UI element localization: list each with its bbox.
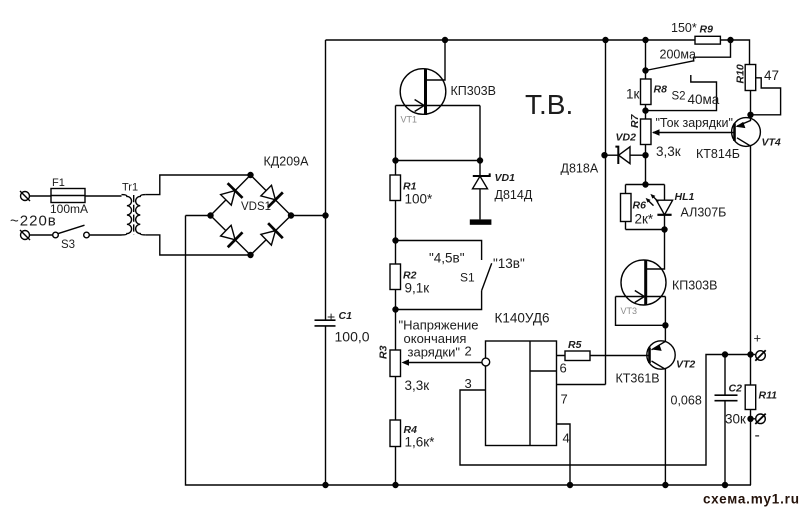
svg-text:0,068: 0,068 <box>671 394 702 408</box>
transistor VT2 body <box>647 341 675 369</box>
svg-text:КТ361В: КТ361В <box>616 372 660 386</box>
svg-text:КД209А: КД209А <box>264 155 310 169</box>
svg-text:+: + <box>754 331 762 346</box>
LED HL1 <box>656 185 672 230</box>
node VD2 left rail <box>602 153 607 158</box>
bridge diode top-right <box>259 183 283 207</box>
wire plus terminal stub <box>751 354 756 356</box>
svg-text:150*: 150* <box>671 21 697 35</box>
terminal X2 input bottom <box>20 230 30 240</box>
svg-text:схема.my1.ru: схема.my1.ru <box>703 492 800 507</box>
svg-text:C1: C1 <box>339 310 353 322</box>
wire VT3 gate-source tie loop <box>616 297 666 326</box>
resistor R10 rheostat <box>745 65 756 91</box>
node R1 top <box>393 158 398 163</box>
bridge diode bottom-left <box>218 223 242 247</box>
svg-text:7: 7 <box>561 392 568 407</box>
svg-text:1к: 1к <box>626 87 640 102</box>
svg-text:~220в: ~220в <box>10 213 57 230</box>
wire VT1 source down to VD1 node <box>479 106 481 161</box>
svg-text:R8: R8 <box>654 84 668 96</box>
wire node R1-VD1 horizontal <box>396 160 481 162</box>
node C2 top <box>723 352 728 357</box>
svg-text:4: 4 <box>563 431 570 446</box>
switch S2 arm <box>646 61 695 71</box>
wire VT2 emitter from VT3 node <box>652 325 666 350</box>
wire VT1 gate down to R1 node <box>395 106 397 161</box>
svg-text:КП303В: КП303В <box>451 84 496 98</box>
wire VT3 drain to HL1 node <box>646 230 665 270</box>
resistor R4 <box>390 420 401 447</box>
LED HL1 emission arrows <box>646 194 659 206</box>
svg-text:100*: 100* <box>405 192 434 207</box>
wire R10 wiper loop <box>751 78 781 115</box>
wire divider column R1 R2 R3 R4 <box>395 161 397 486</box>
svg-text:R9: R9 <box>700 24 714 36</box>
wire VD2 right lead <box>630 154 646 156</box>
wire transformer secondary top to bridge <box>146 175 251 195</box>
transistor VT1 body <box>400 69 446 115</box>
svg-text:"Ток зарядки": "Ток зарядки" <box>656 116 733 130</box>
svg-text:2: 2 <box>465 344 472 359</box>
svg-text:S2: S2 <box>672 91 686 103</box>
wire S1 pivot to R2 bottom node <box>396 291 482 310</box>
wire op-amp pin 3 to plus output node <box>460 355 751 466</box>
wire HL1 R6 bottom bar <box>626 229 665 231</box>
resistor R8 <box>641 79 652 105</box>
bridge diode top-left <box>218 183 242 207</box>
wire VT4 emitter <box>737 115 751 126</box>
capacitor C1 <box>315 320 336 326</box>
svg-text:зарядки": зарядки" <box>408 345 461 360</box>
svg-text:"13в": "13в" <box>493 256 525 271</box>
wire VD2 left lead <box>605 154 619 156</box>
wire transformer secondary bottom to bridge <box>146 235 251 255</box>
wire minus rail and bottom common rail <box>186 216 752 486</box>
resistor R6 <box>621 194 632 222</box>
wire VD2 rail vertical <box>605 40 607 385</box>
wire R3 wiper to op-amp pin 2 <box>405 362 482 364</box>
svg-text:Т.В.: Т.В. <box>525 89 573 120</box>
resistor R11 <box>745 385 756 410</box>
wire S2 upper contact to R9 right <box>694 40 731 62</box>
svg-text:VT4: VT4 <box>762 137 781 149</box>
svg-text:R11: R11 <box>759 390 778 402</box>
svg-text:47: 47 <box>764 68 779 83</box>
svg-text:КП303В: КП303В <box>672 279 717 293</box>
node VD2 right R7 <box>643 153 648 158</box>
svg-text:1,6к*: 1,6к* <box>405 435 436 450</box>
svg-text:2к*: 2к* <box>635 212 654 227</box>
svg-text:АЛ307Б: АЛ307Б <box>681 206 727 220</box>
wire R10 bottom to VT4 emitter node <box>750 91 752 115</box>
fuse F1 <box>51 189 85 203</box>
svg-text:C2: C2 <box>729 383 743 395</box>
node R8 bottom <box>643 108 648 113</box>
svg-text:3,3к: 3,3к <box>405 378 430 393</box>
node bridge top <box>248 173 253 178</box>
svg-text:VT3: VT3 <box>621 306 638 316</box>
wire R8 branch from top rail <box>645 40 647 185</box>
wire left DC plus rail (through C1) <box>325 40 327 485</box>
node S2 pivot <box>643 68 648 73</box>
wire VT2 collector to bottom rail <box>652 361 666 485</box>
resistor R9 <box>695 36 720 44</box>
wire top supply rail <box>326 40 750 65</box>
transistor VT4 body <box>732 118 761 147</box>
node VT1 drain on rail <box>443 38 448 43</box>
svg-text:9,1к: 9,1к <box>405 281 430 296</box>
svg-text:R10: R10 <box>735 64 747 83</box>
svg-text:40ма: 40ма <box>688 92 720 107</box>
node VT4 emitter <box>748 112 753 117</box>
capacitor C2 <box>715 395 738 401</box>
wire VT3 gate-source line <box>616 296 666 298</box>
svg-text:3,3к: 3,3к <box>656 144 681 159</box>
svg-text:Tr1: Tr1 <box>122 182 138 194</box>
svg-text:-: - <box>755 427 760 444</box>
wire VT1 drain to top rail <box>426 40 446 80</box>
wire S3 to transformer <box>89 234 121 236</box>
svg-text:R7: R7 <box>629 113 641 128</box>
resistor R1 <box>390 175 401 201</box>
bridge rectifier VDS1 frame <box>211 175 292 255</box>
zener diode VD1 <box>473 161 490 220</box>
wire VT1 gate-source horizontal <box>396 105 481 107</box>
node bottom rail VT2 <box>663 483 668 488</box>
node HL1 bottom <box>662 227 667 232</box>
svg-text:6: 6 <box>560 361 567 376</box>
node plus output <box>748 352 753 357</box>
wire op-amp pin 6 through R5 to VT2 base <box>557 355 650 357</box>
wire bridge right node to plus rail <box>291 215 326 217</box>
svg-text:R5: R5 <box>568 339 582 351</box>
svg-text:30к: 30к <box>725 412 746 427</box>
switch S1 arm <box>482 263 492 290</box>
wire C2 branch <box>724 355 726 486</box>
switch S3 <box>53 225 90 238</box>
wire S1 upper contact branch <box>396 241 482 261</box>
wire S2 lower contact loop (40ma) <box>646 75 717 111</box>
resistor R2 <box>390 264 401 290</box>
svg-text:"4,5в": "4,5в" <box>429 251 465 266</box>
node minus output <box>748 416 753 421</box>
resistor R5 <box>565 351 590 361</box>
transformer Tr1 secondary winding <box>136 195 146 235</box>
node bottom rail C1 <box>323 483 328 488</box>
transistor VT3 body <box>621 260 666 305</box>
node plus rail at bridge <box>323 213 328 218</box>
node top rail R8 branch <box>643 38 648 43</box>
wire op-amp pin 4 to bottom rail <box>557 424 571 485</box>
wire input line bottom to S3 <box>30 234 53 236</box>
node bottom rail R4 <box>393 483 398 488</box>
terminal minus output <box>755 414 765 424</box>
transformer Tr1 primary winding <box>122 195 132 235</box>
wire HL1 R6 top bar <box>626 184 665 186</box>
wire VT4 collector down through R11 to minus rail <box>737 138 751 485</box>
node VD1 top <box>478 158 483 163</box>
node VT3 source tie <box>663 323 668 328</box>
op-amp U1 K140UD6 <box>482 341 557 446</box>
node R2 top (S1 branch) <box>393 238 398 243</box>
svg-text:К140УД6: К140УД6 <box>495 311 550 326</box>
resistor R7 potentiometer <box>641 119 660 145</box>
node R2 bottom <box>393 307 398 312</box>
chassis bar below VD1 <box>470 219 492 224</box>
wire minus terminal stub <box>751 418 756 420</box>
svg-text:+: + <box>327 309 335 325</box>
svg-text:R3: R3 <box>378 345 390 359</box>
node bridge bottom <box>248 253 253 258</box>
svg-text:R6: R6 <box>633 200 647 212</box>
svg-text:VT2: VT2 <box>676 359 695 371</box>
svg-text:S1: S1 <box>460 271 475 285</box>
svg-text:3: 3 <box>465 376 472 391</box>
terminal plus output <box>755 350 765 360</box>
bridge diode bottom-right <box>259 223 283 247</box>
terminal X1 input top <box>20 191 30 201</box>
svg-text:HL1: HL1 <box>675 191 695 203</box>
svg-text:Д814Д: Д814Д <box>495 188 533 202</box>
wire R7 wiper to VT4 base <box>653 132 735 134</box>
wire op-amp pin 7 to VD2 rail <box>557 384 606 386</box>
node bridge right <box>289 213 294 218</box>
svg-text:100,0: 100,0 <box>335 329 370 345</box>
wire R6 stubs <box>625 185 627 230</box>
svg-text:S3: S3 <box>61 239 75 251</box>
wire input line top <box>30 195 122 197</box>
wire bridge left node to minus rail <box>186 215 211 217</box>
node top rail R9 right <box>728 38 733 43</box>
svg-text:Д818А: Д818А <box>561 162 599 176</box>
node HL1 top <box>643 182 648 187</box>
svg-text:200ма: 200ма <box>660 48 696 62</box>
transformer Tr1 core <box>133 195 135 235</box>
svg-text:VD2: VD2 <box>616 132 637 144</box>
node bridge left <box>208 213 213 218</box>
svg-text:VD1: VD1 <box>495 172 516 184</box>
svg-text:F1: F1 <box>52 177 65 189</box>
svg-text:VDS1: VDS1 <box>241 201 271 213</box>
node top rail VD2 branch <box>603 38 608 43</box>
node bottom rail C2 <box>723 483 728 488</box>
resistor R3 potentiometer <box>390 350 409 377</box>
svg-text:КТ814Б: КТ814Б <box>696 147 740 161</box>
zener diode VD2 <box>615 147 630 164</box>
svg-text:VT1: VT1 <box>401 115 418 125</box>
node bottom rail pin4 <box>568 483 573 488</box>
